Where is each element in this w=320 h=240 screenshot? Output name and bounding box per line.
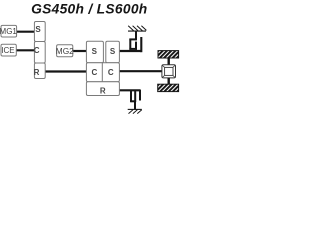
svg-text:C: C	[92, 68, 98, 77]
brake B1 friction element	[129, 31, 141, 52]
shaft stub bottom	[167, 78, 169, 84]
final drive / wheel	[162, 65, 176, 78]
svg-text:S: S	[35, 25, 41, 34]
svg-text:MG1: MG1	[0, 27, 17, 36]
planetary 1: carrier C	[34, 42, 45, 64]
svg-text:C: C	[34, 46, 40, 55]
brake B1 (top) ground hatch	[128, 26, 146, 31]
carrier row C2 C3	[86, 63, 119, 82]
box MG1	[0, 25, 17, 37]
fixed bar top (hatched)	[158, 51, 179, 58]
wire carrier C3 to final drive	[119, 70, 163, 72]
wire MG2 to sun S2	[73, 50, 88, 52]
svg-text:C: C	[108, 68, 114, 77]
planetary 2: sun S2	[86, 41, 103, 63]
svg-text:S: S	[92, 47, 98, 56]
svg-text:R: R	[34, 68, 40, 77]
wire MG1 to sun S1	[16, 31, 35, 33]
fixed bar bottom (hatched)	[158, 84, 179, 91]
brake B2 (bottom) friction element	[130, 90, 140, 110]
planetary 3: sun S3	[106, 41, 120, 63]
brake B2 ground hatch	[128, 109, 142, 113]
planetary 1: sun S	[34, 22, 45, 42]
svg-text:ICE: ICE	[1, 46, 14, 55]
wire ICE to carrier C1	[16, 49, 35, 51]
svg-text:GS450h / LS600h: GS450h / LS600h	[31, 2, 147, 17]
shaft stub top	[167, 58, 169, 65]
svg-text:S: S	[110, 47, 116, 56]
box ICE	[1, 44, 16, 56]
wire ring R2 to brake B2	[119, 89, 141, 91]
box MG2	[56, 45, 74, 57]
svg-text:MG2: MG2	[56, 46, 74, 56]
wire ring R1 to carrier C2	[45, 70, 87, 72]
wire sun S3 to brake B1	[119, 50, 142, 52]
planetary 1: ring R	[34, 63, 46, 79]
svg-text:R: R	[100, 86, 106, 95]
shared ring R2	[86, 82, 119, 96]
